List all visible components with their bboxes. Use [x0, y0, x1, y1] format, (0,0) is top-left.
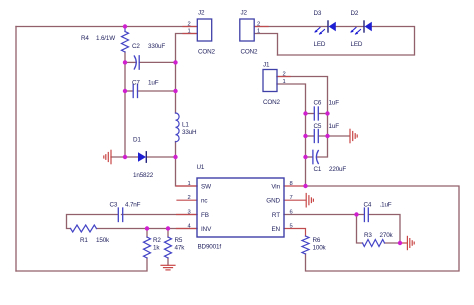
wire RT node down to R3 left: [357, 215, 363, 244]
wire C6 right column segment: [327, 114, 329, 137]
svg-text:2: 2: [188, 22, 191, 28]
node R3 right: [398, 241, 402, 245]
wire RT row to C4: [284, 214, 364, 216]
wire C6 left column segment: [305, 114, 307, 137]
svg-text:C6: C6: [314, 100, 322, 107]
svg-text:C7: C7: [132, 80, 140, 87]
wire SW pin stub: [177, 185, 198, 187]
wire L1 bottom to SW node: [175, 142, 177, 158]
wire D3 to D2: [336, 26, 365, 28]
wire R3 right to ground node: [385, 242, 401, 244]
svg-text:2: 2: [257, 22, 260, 28]
node C5 left: [303, 134, 307, 138]
svg-text:1: 1: [188, 29, 191, 35]
LED D2: [351, 10, 372, 48]
connector J2 (middle): [240, 10, 260, 56]
svg-text:150k: 150k: [96, 237, 110, 244]
ground (left of D1): [104, 150, 111, 163]
wire C1 right bend up column: [317, 136, 328, 157]
svg-text:Vin: Vin: [271, 184, 280, 191]
svg-text:J1: J1: [263, 62, 270, 69]
diode D1: [133, 137, 154, 180]
svg-text:1: 1: [283, 79, 286, 85]
wire C5 row right to ground: [319, 135, 350, 137]
svg-text:4.7nF: 4.7nF: [125, 202, 141, 209]
wire J2a pin1 stub: [183, 33, 197, 35]
svg-text:1uF: 1uF: [329, 100, 340, 107]
node RT: [354, 212, 358, 216]
node C1 left: [303, 155, 307, 159]
wire C2 row left: [125, 61, 136, 63]
wire INV row from R1 to pin 4: [97, 228, 198, 230]
resistor R5: [165, 237, 186, 258]
ground (GND pin 7): [306, 194, 313, 207]
wire Vin rail loop right and bottom to R6: [306, 186, 460, 271]
resistor R3: [363, 232, 394, 247]
node SW: [173, 155, 177, 159]
wire J1 pin1 right bend down: [277, 84, 306, 114]
svg-text:SW: SW: [201, 184, 211, 191]
wire J2b pin stubs: [255, 26, 269, 28]
svg-text:.1uF: .1uF: [380, 202, 392, 209]
svg-text:1.6/1W: 1.6/1W: [96, 35, 115, 42]
svg-text:J2: J2: [198, 10, 205, 17]
wire top rail from left loop to J2 pin2: [16, 26, 197, 28]
svg-text:8: 8: [290, 181, 293, 187]
wire Vin pin stub to node: [284, 185, 306, 187]
svg-text:2: 2: [283, 72, 286, 78]
svg-text:RT: RT: [272, 212, 280, 219]
node Vin: [303, 184, 307, 188]
wire C1 node down to Vin node: [305, 157, 307, 186]
svg-text:1: 1: [188, 181, 191, 187]
svg-text:47k: 47k: [175, 245, 186, 252]
wire GND pin stub: [284, 199, 306, 201]
svg-text:nc: nc: [201, 198, 207, 205]
wire R5 top stub: [167, 229, 169, 238]
op-amp U1 (IC BD9001f): [188, 164, 293, 251]
svg-text:GND: GND: [266, 198, 280, 205]
svg-text:330uF: 330uF: [148, 43, 165, 50]
svg-text:R1: R1: [80, 237, 88, 244]
wire J2b pin2 to D3: [255, 26, 329, 28]
svg-text:C2: C2: [132, 43, 140, 50]
node C7 left: [123, 89, 127, 93]
wire C6 row right: [319, 113, 328, 115]
ground (below R5): [161, 265, 175, 270]
resistor R1: [71, 225, 111, 244]
node R5 top: [166, 226, 170, 230]
svg-text:1n5822: 1n5822: [133, 172, 154, 179]
svg-text:7: 7: [290, 195, 293, 201]
svg-text:R4: R4: [81, 35, 89, 42]
svg-text:U1: U1: [197, 164, 205, 171]
svg-text:D1: D1: [133, 137, 141, 144]
ground (right of R3): [400, 236, 414, 249]
wire D1 row: [111, 156, 138, 158]
wire SW node down to pin1 SW: [176, 157, 198, 186]
node C6 left: [303, 111, 307, 115]
svg-text:R3: R3: [364, 232, 372, 239]
svg-text:R2: R2: [153, 237, 161, 244]
node C6 right: [325, 111, 329, 115]
svg-text:LED: LED: [314, 41, 326, 48]
svg-text:C3: C3: [110, 202, 118, 209]
node C2 left: [123, 60, 127, 64]
svg-text:CON2: CON2: [263, 99, 281, 106]
wire D2 to LED loop right: [278, 27, 415, 56]
node C5 right: [325, 134, 329, 138]
svg-text:L1: L1: [182, 122, 189, 129]
wire C4 right bend down to R3 right node: [369, 215, 401, 244]
wire C7 row left: [125, 90, 133, 92]
connector J1: [263, 62, 286, 107]
svg-text:1k: 1k: [153, 245, 160, 252]
wire C7 row right: [138, 90, 176, 92]
svg-text:220uF: 220uF: [329, 166, 346, 173]
connector J2 (left): [188, 10, 216, 56]
wire C5 column to C1 row: [305, 136, 307, 157]
capacitor C4: [364, 202, 392, 222]
node junction dots: [123, 24, 402, 245]
wire C1 row left: [306, 156, 313, 158]
capacitor C6: [314, 100, 340, 121]
wire D1 cathode to SW column: [147, 156, 176, 158]
svg-text:C5: C5: [314, 123, 322, 130]
svg-text:3: 3: [188, 210, 191, 216]
capacitor C1: [313, 150, 347, 173]
svg-text:1: 1: [257, 29, 260, 35]
node C2 right: [173, 60, 177, 64]
wire C2 row right: [139, 61, 175, 63]
svg-text:INV: INV: [201, 226, 212, 233]
wire INV pin stub: [177, 228, 198, 230]
svg-text:C4: C4: [364, 202, 372, 209]
svg-text:100k: 100k: [313, 245, 327, 252]
svg-text:D2: D2: [351, 10, 359, 17]
wire R4 column down to D1 anode node: [124, 52, 126, 157]
svg-text:2: 2: [188, 195, 191, 201]
svg-text:CON2: CON2: [198, 49, 216, 56]
node D1 anode: [123, 155, 127, 159]
svg-text:CON2: CON2: [241, 49, 259, 56]
wire R2 top stub: [146, 229, 148, 238]
node R4 top: [123, 24, 127, 28]
node C7 right: [173, 89, 177, 93]
svg-text:BD9001f: BD9001f: [198, 244, 222, 251]
wire J1 pin stubs: [277, 76, 290, 78]
wire EN pin bend down to R6: [284, 229, 306, 237]
wire J2 pin1 bend down L1 column: [176, 34, 198, 114]
resistor R4: [81, 27, 129, 53]
ground (right of C5): [350, 129, 357, 142]
svg-text:C1: C1: [314, 166, 322, 173]
wire J2a pin2 stub: [183, 26, 197, 28]
capacitor C2: [132, 43, 165, 69]
svg-text:33uH: 33uH: [182, 129, 197, 136]
wire FB row to C3: [122, 214, 198, 216]
wire J1 pin2 right bend down: [277, 77, 328, 114]
wire R5 bottom to ground: [167, 258, 169, 265]
svg-text:J2: J2: [241, 10, 248, 17]
svg-text:1uF: 1uF: [329, 123, 340, 130]
wire FB row left bend down: [67, 215, 118, 229]
capacitor C7: [132, 80, 159, 98]
node R2 top: [145, 226, 149, 230]
capacitor C3: [110, 202, 141, 222]
svg-text:LED: LED: [351, 41, 363, 48]
capacitor C5: [314, 123, 340, 143]
wire C6 row left: [306, 113, 315, 115]
wire nc pin stub: [177, 199, 197, 201]
svg-text:R6: R6: [313, 237, 321, 244]
svg-text:D3: D3: [314, 10, 322, 17]
inductor L1: [176, 113, 198, 142]
wire FB pin stub: [177, 214, 198, 216]
wire left outer vertical: [15, 27, 17, 272]
svg-text:5: 5: [290, 224, 293, 230]
wire bottom-left rail to R2 bottom: [16, 258, 147, 271]
svg-text:EN: EN: [271, 226, 280, 233]
LED D3: [314, 10, 336, 48]
svg-text:FB: FB: [201, 212, 209, 219]
resistor R2: [144, 237, 162, 258]
wire C5 row left: [306, 135, 315, 137]
resistor R6: [302, 236, 327, 254]
svg-text:R5: R5: [175, 237, 183, 244]
svg-text:6: 6: [290, 210, 293, 216]
svg-text:270k: 270k: [380, 232, 394, 239]
svg-text:1uF: 1uF: [148, 80, 159, 87]
wire J2b pin1 down: [255, 34, 278, 56]
